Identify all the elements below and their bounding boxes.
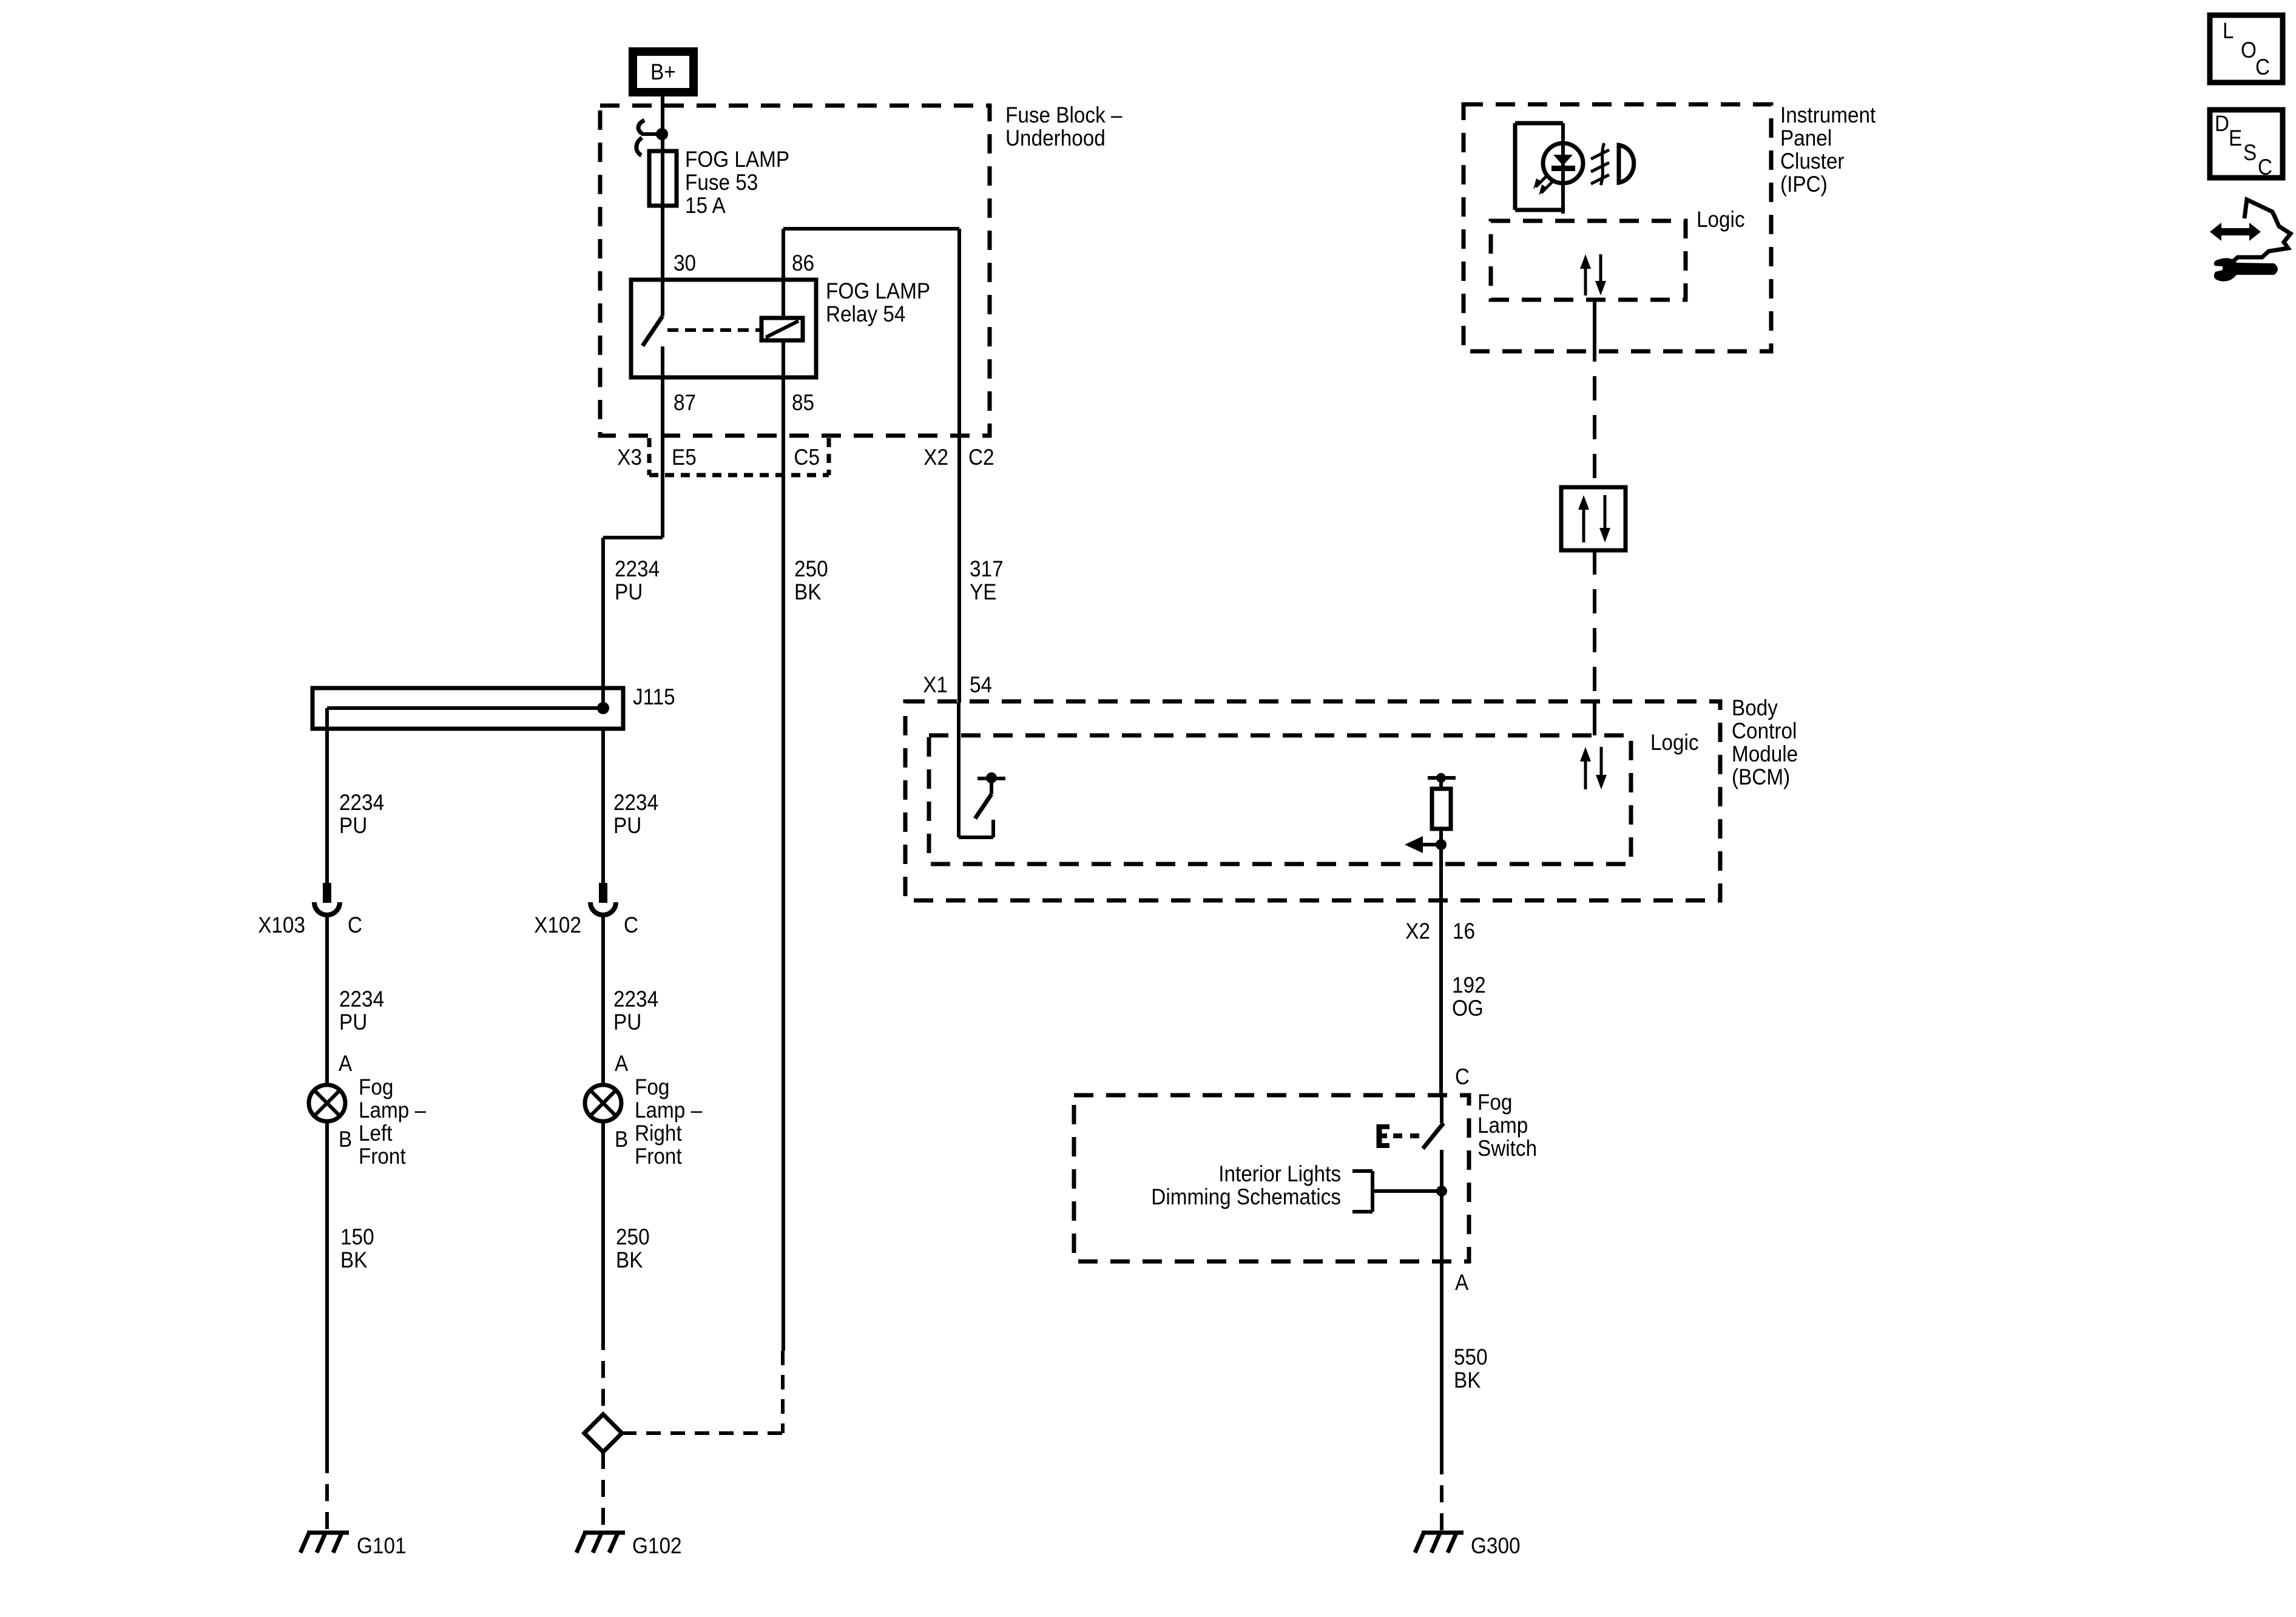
svg-text:Lamp –: Lamp – bbox=[635, 1098, 702, 1122]
svg-text:Right: Right bbox=[635, 1121, 682, 1146]
svg-text:2234: 2234 bbox=[615, 556, 660, 581]
label Logic (IPC) bbox=[1697, 207, 1745, 232]
label C2 bbox=[968, 445, 994, 470]
svg-text:O: O bbox=[2241, 38, 2257, 62]
Instrument Panel Cluster box bbox=[1464, 104, 1771, 351]
svg-text:G102: G102 bbox=[632, 1533, 682, 1558]
relay coil bbox=[761, 318, 803, 340]
svg-text:C2: C2 bbox=[968, 445, 994, 470]
svg-text:X3: X3 bbox=[617, 445, 642, 470]
LOC icon bbox=[2210, 15, 2283, 83]
svg-text:Fog: Fog bbox=[359, 1075, 393, 1099]
svg-text:192: 192 bbox=[1452, 973, 1486, 998]
serial data interface box bbox=[1561, 487, 1626, 550]
label X3 bbox=[617, 445, 642, 470]
svg-text:B: B bbox=[339, 1127, 352, 1152]
svg-text:Logic: Logic bbox=[1650, 730, 1699, 755]
relay pin label 85 bbox=[792, 390, 814, 415]
svg-text:BK: BK bbox=[794, 579, 822, 604]
BCM input sense arrow bbox=[1405, 836, 1447, 853]
IPC serial data arrows bbox=[1580, 254, 1606, 295]
svg-text:(IPC): (IPC) bbox=[1780, 172, 1828, 197]
svg-text:Interior Lights: Interior Lights bbox=[1218, 1161, 1341, 1186]
svg-text:16: 16 bbox=[1453, 919, 1475, 944]
svg-text:C: C bbox=[624, 913, 638, 937]
svg-text:Panel: Panel bbox=[1780, 126, 1832, 150]
DESC icon bbox=[2210, 110, 2283, 180]
wire X103 to left fog lamp bbox=[325, 917, 329, 1086]
svg-text:C: C bbox=[1455, 1064, 1470, 1089]
Interior Lights Dimming Schematics reference bbox=[1151, 1161, 1447, 1212]
LED fog lamp indicator bbox=[1533, 143, 1583, 195]
svg-text:87: 87 bbox=[674, 390, 696, 415]
svg-text:Fuse 53: Fuse 53 bbox=[685, 170, 758, 195]
svg-text:C: C bbox=[348, 913, 362, 937]
svg-text:Dimming Schematics: Dimming Schematics bbox=[1151, 1184, 1341, 1209]
wire label 192 OG bbox=[1452, 973, 1486, 1021]
label Fog Lamp Switch bbox=[1477, 1090, 1537, 1161]
connector view icon bbox=[2210, 200, 2291, 282]
wire diamond to G102 bbox=[601, 1452, 605, 1531]
label Instrument Panel Cluster (IPC) bbox=[1780, 103, 1876, 197]
svg-text:30: 30 bbox=[674, 251, 696, 275]
label 54 bbox=[970, 672, 992, 697]
svg-text:A: A bbox=[1455, 1270, 1468, 1295]
splice diamond bbox=[584, 1414, 622, 1452]
splice J115 bbox=[312, 688, 623, 729]
Fog Lamp Switch box bbox=[1074, 1095, 1469, 1261]
label Logic (BCM) bbox=[1650, 730, 1699, 755]
svg-text:A: A bbox=[339, 1051, 352, 1076]
svg-text:PU: PU bbox=[613, 1010, 641, 1035]
svg-text:86: 86 bbox=[792, 251, 814, 275]
svg-text:L: L bbox=[2223, 18, 2234, 43]
wire J115 to X103 (2234 PU) bbox=[325, 708, 329, 883]
svg-text:2234: 2234 bbox=[339, 987, 384, 1011]
wire label 317 YE bbox=[970, 556, 1004, 604]
relay pin label 30 bbox=[674, 251, 696, 275]
fog lamp switch contact bbox=[1423, 1095, 1443, 1261]
svg-text:Module: Module bbox=[1732, 741, 1798, 766]
svg-text:Left: Left bbox=[359, 1121, 393, 1146]
svg-text:X103: X103 bbox=[258, 913, 305, 937]
lamp Fog Lamp - Left Front bbox=[309, 1051, 426, 1169]
battery terminal B+ bbox=[633, 52, 694, 92]
svg-text:150: 150 bbox=[340, 1224, 374, 1249]
svg-text:X2: X2 bbox=[1405, 919, 1430, 944]
svg-text:G300: G300 bbox=[1471, 1533, 1521, 1558]
svg-text:PU: PU bbox=[615, 579, 643, 604]
svg-text:Relay 54: Relay 54 bbox=[826, 302, 905, 326]
ground G102 bbox=[576, 1533, 682, 1558]
wire label 2234 PU left bbox=[339, 790, 384, 838]
wire 317 YE into BCM driver bbox=[959, 703, 993, 837]
ground G300 bbox=[1415, 1533, 1521, 1558]
svg-text:C: C bbox=[2255, 55, 2270, 79]
svg-text:C5: C5 bbox=[794, 445, 820, 470]
wire relay 87 (2234 PU) to splice J115 bbox=[603, 377, 663, 708]
label pin A bbox=[1455, 1270, 1468, 1295]
lamp Fog Lamp - Right Front bbox=[585, 1051, 702, 1169]
svg-text:PU: PU bbox=[613, 813, 641, 838]
svg-text:Control: Control bbox=[1732, 718, 1797, 743]
svg-text:J115: J115 bbox=[633, 684, 675, 709]
svg-text:E5: E5 bbox=[672, 445, 697, 470]
fog lamp pictograph bbox=[1591, 143, 1634, 185]
relay pin label 86 bbox=[792, 251, 814, 275]
svg-text:317: 317 bbox=[970, 556, 1004, 581]
svg-text:Lamp: Lamp bbox=[1477, 1113, 1528, 1138]
BCM pull-up resistor bbox=[1428, 773, 1456, 845]
svg-text:X102: X102 bbox=[534, 913, 581, 937]
svg-text:BK: BK bbox=[340, 1247, 368, 1272]
label Body Control Module (BCM) bbox=[1732, 695, 1798, 789]
wire right lamp B to splice diamond (250 BK) bbox=[601, 1120, 605, 1414]
dashed wire 250 BK to diamond bbox=[622, 1351, 783, 1433]
svg-text:PU: PU bbox=[339, 1010, 367, 1035]
label pin C bbox=[1455, 1064, 1470, 1089]
wire IPC logic stub bbox=[1593, 300, 1596, 337]
dashed data wire interface box to BCM bbox=[1593, 550, 1596, 701]
svg-text:Instrument: Instrument bbox=[1780, 103, 1876, 127]
connector X102 bbox=[534, 883, 638, 937]
wire X102 to right fog lamp bbox=[601, 917, 605, 1086]
svg-text:Switch: Switch bbox=[1477, 1136, 1537, 1161]
wire relay 86 to connector C2 bbox=[783, 229, 959, 703]
svg-text:Logic: Logic bbox=[1697, 207, 1745, 232]
svg-text:C: C bbox=[2258, 155, 2272, 180]
svg-text:(BCM): (BCM) bbox=[1732, 765, 1790, 789]
svg-text:FOG LAMP: FOG LAMP bbox=[826, 279, 930, 303]
wire label 2234 PU lower right bbox=[613, 987, 658, 1035]
wire label 250 BK bbox=[794, 556, 828, 604]
svg-text:A: A bbox=[615, 1051, 628, 1076]
svg-text:2234: 2234 bbox=[613, 790, 658, 815]
label Fuse Block - Underhood bbox=[1005, 103, 1123, 150]
wire label 2234 PU lower left bbox=[339, 987, 384, 1035]
svg-text:Body: Body bbox=[1732, 695, 1778, 720]
svg-text:Fog: Fog bbox=[1477, 1090, 1512, 1115]
fuse F53 FOG LAMP Fuse 53 15 A bbox=[649, 147, 789, 218]
BCM serial data arrows bbox=[1580, 747, 1607, 789]
Body Control Module box bbox=[905, 701, 1720, 900]
wire label 250 BK lower bbox=[616, 1224, 650, 1272]
label 16 bbox=[1453, 919, 1475, 944]
label X1 bbox=[923, 672, 948, 697]
wire label 2234 PU bbox=[615, 556, 660, 604]
svg-text:Lamp –: Lamp – bbox=[359, 1098, 426, 1122]
label E5 bbox=[672, 445, 697, 470]
svg-text:15 A: 15 A bbox=[685, 193, 726, 218]
label J115 bbox=[633, 684, 675, 709]
svg-text:BK: BK bbox=[616, 1247, 643, 1272]
relay switch contact bbox=[643, 280, 663, 377]
wire stub into BCM logic bbox=[1593, 701, 1596, 735]
wire relay 85 (250 BK) down bbox=[782, 340, 785, 1351]
svg-text:550: 550 bbox=[1454, 1345, 1488, 1369]
relay armature dashed link bbox=[667, 328, 760, 332]
dashed data wire IPC to interface box bbox=[1593, 337, 1596, 487]
fuse clip at B+ feed bbox=[636, 120, 668, 155]
LED indicator circuit frame bbox=[1515, 123, 1563, 214]
label X2 (BCM) bbox=[1405, 919, 1430, 944]
svg-text:250: 250 bbox=[794, 556, 828, 581]
svg-text:85: 85 bbox=[792, 390, 814, 415]
svg-text:Cluster: Cluster bbox=[1780, 149, 1845, 174]
svg-text:Fuse Block –: Fuse Block – bbox=[1005, 103, 1123, 127]
label X2 bbox=[923, 445, 948, 470]
svg-text:2234: 2234 bbox=[613, 987, 658, 1011]
svg-text:Front: Front bbox=[359, 1144, 406, 1169]
connector X103 bbox=[258, 883, 362, 937]
svg-text:G101: G101 bbox=[357, 1533, 407, 1558]
svg-text:S: S bbox=[2243, 140, 2257, 165]
svg-text:Front: Front bbox=[635, 1144, 682, 1169]
relay pin label 87 bbox=[674, 390, 696, 415]
Fuse Block - Underhood box bbox=[600, 106, 990, 436]
IPC Logic box bbox=[1491, 221, 1686, 300]
connector box E5/C5 bbox=[649, 438, 829, 475]
wire switch A to G300 bbox=[1440, 1261, 1443, 1531]
svg-text:FOG LAMP: FOG LAMP bbox=[685, 147, 789, 172]
svg-text:YE: YE bbox=[970, 579, 996, 604]
wire label 150 BK bbox=[340, 1224, 374, 1272]
svg-text:PU: PU bbox=[339, 813, 367, 838]
svg-text:Underhood: Underhood bbox=[1005, 126, 1106, 150]
wire J115 to X102 (2234 PU) bbox=[601, 729, 605, 883]
switch detent E link bbox=[1379, 1124, 1420, 1148]
svg-text:BK: BK bbox=[1454, 1368, 1481, 1393]
svg-text:X1: X1 bbox=[923, 672, 948, 697]
label C5 bbox=[794, 445, 820, 470]
svg-text:Fog: Fog bbox=[635, 1075, 669, 1099]
svg-text:X2: X2 bbox=[923, 445, 948, 470]
svg-text:2234: 2234 bbox=[339, 790, 384, 815]
svg-text:B+: B+ bbox=[650, 59, 676, 84]
BCM output driver switch bbox=[975, 772, 1005, 819]
wire left lamp B to G101 (150 BK) bbox=[325, 1120, 329, 1531]
wire B+ to fuse bbox=[661, 96, 664, 280]
relay K54 FOG LAMP Relay 54 bbox=[631, 279, 930, 377]
wire label 550 BK bbox=[1454, 1345, 1488, 1393]
svg-text:E: E bbox=[2229, 126, 2242, 150]
wire BCM sense to X2 pin 16 bbox=[1439, 845, 1443, 1095]
svg-text:54: 54 bbox=[970, 672, 992, 697]
svg-text:250: 250 bbox=[616, 1224, 650, 1249]
ground G101 bbox=[300, 1533, 407, 1558]
BCM Logic box bbox=[929, 735, 1631, 864]
svg-text:D: D bbox=[2215, 111, 2229, 136]
wire label 2234 PU right bbox=[613, 790, 658, 838]
svg-text:B: B bbox=[615, 1127, 628, 1152]
svg-text:OG: OG bbox=[1452, 996, 1484, 1021]
